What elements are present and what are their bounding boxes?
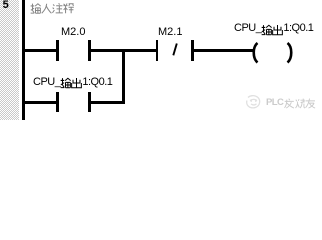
coil ( ) <box>250 42 295 64</box>
contact M2.1 right bar <box>191 40 194 61</box>
left power rail <box>22 0 25 120</box>
coil label CPU_输出1:Q0.1 <box>234 23 313 36</box>
network title 输入注释 <box>30 2 74 20</box>
wire M2.0 to M2.1 <box>91 49 156 52</box>
contact M2.0 right bar <box>88 40 91 61</box>
branch label CPU_输出1:Q0.1 <box>33 77 112 90</box>
branch contact right bar <box>88 92 91 113</box>
branch riser (junction to lower branch) <box>122 51 125 104</box>
watermark icon <box>244 94 263 110</box>
contact M2.0 left bar <box>56 40 59 61</box>
glyph defs for hand-drawn CJK characters <box>0 0 1 1</box>
watermark text PLC发烧友 <box>266 98 316 109</box>
contact M2.1 left bar <box>156 40 159 61</box>
rung 1: wire rail to M2.0 <box>25 49 57 52</box>
rung number 5 <box>3 0 9 11</box>
gutter dither (gray checkerboard) <box>0 0 19 120</box>
contact M2.0 label <box>61 27 85 38</box>
wire M2.1 to coil <box>194 49 253 52</box>
branch wire contact to riser <box>91 101 126 104</box>
contact M2.1 label <box>158 27 182 38</box>
contact M2.1 NC slash <box>170 42 180 57</box>
branch wire rail to contact <box>25 101 57 104</box>
branch contact left bar <box>56 92 59 113</box>
